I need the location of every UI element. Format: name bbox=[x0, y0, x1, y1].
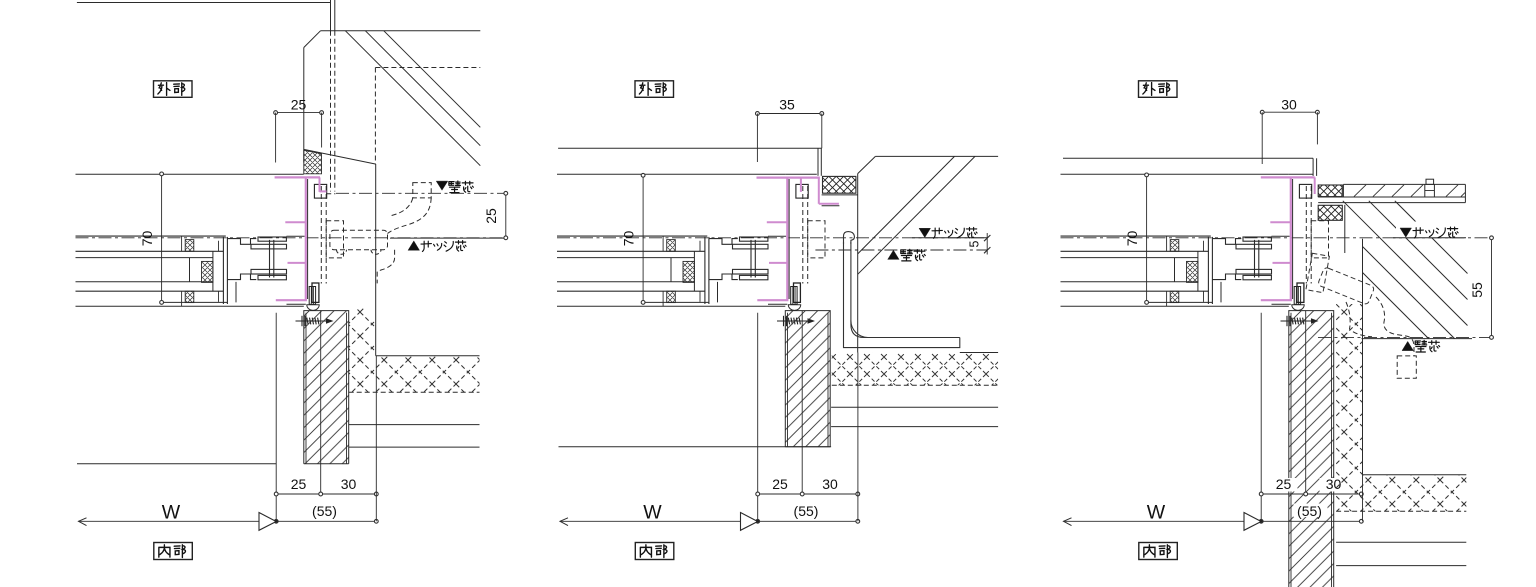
sash bottom line bbox=[162, 301, 228, 303]
interior frame line bbox=[1061, 305, 1289, 307]
jamb top flange (magenta) bbox=[1261, 176, 1315, 178]
sash-center leader solid bbox=[912, 237, 987, 239]
eave soffit line bbox=[321, 30, 481, 32]
label box GAIBU (exterior) bbox=[1139, 81, 1178, 98]
siding board hatch ticks bbox=[1354, 185, 1458, 197]
jamb face black edge bbox=[788, 179, 790, 299]
glazing spacer block bbox=[683, 261, 694, 282]
siding board right end bbox=[1464, 184, 1466, 202]
dimension text 25 mask bbox=[1270, 478, 1298, 492]
dimension 55 line bbox=[1491, 238, 1493, 338]
eave soffit top line bbox=[77, 2, 331, 4]
glazing bead vertical bbox=[212, 251, 214, 291]
insulation band bottom (dashed) bbox=[349, 391, 480, 393]
interlock tab bottom bbox=[258, 275, 286, 279]
extension line middle bbox=[1305, 311, 1307, 495]
svg-text:25: 25 bbox=[1276, 476, 1292, 492]
meeting stile vertical 2 bbox=[1211, 237, 1213, 304]
wall-center label triangle bbox=[888, 250, 899, 259]
frame bottom clip bbox=[794, 283, 801, 302]
steel angle corner fillet bbox=[851, 321, 868, 338]
frame link line bottom bbox=[1272, 303, 1291, 305]
dimension text (55) mask bbox=[790, 504, 824, 518]
extension line left bbox=[1260, 313, 1262, 522]
balcony diagonal 2 bbox=[365, 31, 480, 146]
frame head line (exterior) bbox=[76, 173, 304, 175]
insulation band bottom (dashed) bbox=[1336, 510, 1466, 512]
wall corner vertical 1 bbox=[817, 148, 819, 176]
hidden anchor tube inner (dashed) bbox=[1346, 302, 1372, 337]
sash edge vertical lower bbox=[235, 282, 237, 303]
jamb fin lower (magenta) bbox=[1273, 262, 1291, 264]
frame link line bottom bbox=[287, 303, 306, 305]
frame screw boss bbox=[309, 287, 315, 305]
sash-center label SASSHI-SHIN bbox=[1413, 228, 1423, 238]
rail inner vertical top bbox=[181, 236, 183, 251]
exterior gasket block bottom (crosshatch) bbox=[1318, 205, 1342, 220]
interior frame line bbox=[557, 305, 785, 307]
top dimension 30 ext right bbox=[1316, 112, 1318, 144]
glazing gasket top bbox=[667, 240, 676, 252]
upper wall top line bbox=[875, 155, 998, 157]
wall-center label KABE-SHIN bbox=[901, 249, 912, 261]
sash center line (dash-dot) bbox=[557, 237, 987, 239]
extension line left bbox=[275, 313, 277, 522]
insulation band (dashed crosshatch) bbox=[376, 356, 480, 393]
dimension 70 line bbox=[161, 174, 163, 303]
label box NAIBU (interior) bbox=[635, 543, 674, 560]
wall face vertical bbox=[857, 174, 859, 353]
wall center line (dash-dot) bbox=[1318, 336, 1490, 338]
sash-center label triangle bbox=[919, 228, 931, 237]
W arrow triangle bbox=[259, 513, 276, 531]
interlock tab top bbox=[740, 237, 768, 241]
interlock tab top bbox=[258, 237, 286, 241]
wall diagonal 2 bbox=[1363, 247, 1455, 339]
interlock flange top bbox=[1236, 244, 1272, 249]
steel angle outer bbox=[844, 242, 960, 348]
wall diagonal 4 bbox=[1369, 201, 1468, 300]
top dimension 35 ext right bbox=[821, 114, 823, 149]
dimension text 30 mask bbox=[816, 478, 844, 492]
frame link line top bbox=[287, 235, 305, 237]
glass pane line 1 bbox=[76, 257, 213, 259]
frame head line extension bbox=[1289, 173, 1313, 175]
interlock hat bottom bbox=[227, 274, 256, 280]
jamb top flange (magenta) bbox=[275, 176, 320, 178]
interlock flange top bbox=[733, 244, 769, 249]
frame link line top bbox=[768, 235, 786, 237]
W arrow triangle bbox=[1244, 513, 1261, 531]
glazing gasket bottom bbox=[1170, 291, 1179, 302]
frame bottom cup bbox=[307, 305, 319, 311]
frame link line bottom bbox=[768, 303, 787, 305]
meeting stile vertical 2 bbox=[226, 237, 228, 304]
interior wall face line bbox=[559, 446, 832, 448]
wall center line (dash-dot) bbox=[336, 192, 506, 194]
wall top line bbox=[1063, 157, 1313, 159]
glazing bead step bbox=[1203, 241, 1205, 252]
steel angle hook curl bbox=[844, 232, 855, 244]
sash center line (dash-dot) bbox=[1061, 237, 1491, 239]
wall corner vertical bbox=[1344, 205, 1346, 253]
svg-text:70: 70 bbox=[621, 231, 637, 247]
W dimension line bbox=[560, 520, 758, 522]
glazing bead step bbox=[218, 241, 220, 252]
sash-center label SASSHI-SHIN bbox=[932, 228, 942, 238]
wall center line (dash-dot) bbox=[815, 249, 987, 251]
wall top line bbox=[558, 147, 822, 149]
sash surround face vertical bbox=[303, 48, 305, 163]
svg-text:70: 70 bbox=[139, 231, 155, 247]
interlock flange top bbox=[251, 244, 287, 249]
insulation strip (dashed crosshatch) bbox=[1336, 304, 1362, 511]
dimension 5 connector bbox=[986, 233, 988, 255]
glazing line 2 bbox=[76, 290, 224, 292]
dimension 5 tick bottom bbox=[984, 247, 990, 253]
wall face vertical bbox=[375, 164, 377, 356]
W arrow triangle bbox=[741, 513, 758, 531]
sash top rail line bbox=[1061, 235, 1211, 237]
glazing bead vertical bbox=[1197, 251, 1199, 291]
dimension 70 line bbox=[1146, 175, 1148, 303]
wall diagonal 5 bbox=[1395, 201, 1468, 274]
hidden frame line 1 (dashed) bbox=[802, 186, 804, 284]
eave vertical 2 bbox=[334, 0, 336, 31]
exterior sealant block (crosshatch) bbox=[304, 150, 322, 174]
column inner edge left bbox=[787, 313, 789, 447]
wall diagonal 1 bbox=[1363, 273, 1429, 339]
interlock web vertical 1 bbox=[1254, 240, 1256, 278]
sash bottom line bbox=[643, 301, 709, 303]
exterior gasket block (crosshatch) bbox=[823, 176, 856, 193]
board end corner tick bbox=[1461, 193, 1465, 197]
extension line middle bbox=[801, 311, 803, 495]
interior wall line 2 bbox=[1336, 565, 1466, 567]
svg-text:(55): (55) bbox=[1297, 503, 1322, 519]
wall diagonal face 1 bbox=[858, 156, 955, 254]
svg-text:(55): (55) bbox=[794, 503, 819, 519]
frame anchor hook bbox=[1299, 184, 1311, 198]
siding board top line bbox=[1343, 183, 1465, 185]
extension to dimension bbox=[375, 356, 377, 522]
hidden anchor plate tilted (dashed) bbox=[1317, 267, 1374, 305]
svg-text:25: 25 bbox=[483, 208, 499, 224]
svg-text:25: 25 bbox=[772, 476, 788, 492]
svg-text:W: W bbox=[1147, 502, 1166, 524]
sash jamb frame vertical (magenta) bbox=[786, 177, 788, 300]
svg-text:W: W bbox=[643, 502, 662, 524]
glass edge vertical bbox=[670, 258, 672, 282]
dimension 70 line bbox=[642, 175, 644, 302]
meeting stile vertical 1 bbox=[222, 237, 224, 304]
board joint break bbox=[1424, 184, 1426, 197]
interlock hat bottom bbox=[709, 274, 738, 280]
interlock tab bottom bbox=[1243, 275, 1271, 279]
sash jamb frame vertical (magenta) bbox=[1290, 177, 1292, 300]
label box GAIBU (exterior) bbox=[635, 81, 674, 98]
hidden anchor clip (dashed) bbox=[1311, 221, 1328, 258]
eave hidden vertical 1 (dashed) bbox=[330, 31, 332, 192]
siding board bottom line 1 bbox=[1318, 196, 1465, 198]
hidden wall top (dashed) bbox=[375, 67, 480, 69]
W arrow left bbox=[79, 518, 87, 526]
frame screw boss bbox=[1294, 287, 1300, 305]
W dimension line bbox=[1064, 520, 1262, 522]
svg-text:55: 55 bbox=[1469, 282, 1485, 298]
interlock flange bottom bbox=[251, 269, 287, 274]
glazing bead step bbox=[699, 241, 701, 252]
sash-center label triangle bbox=[408, 241, 420, 250]
siding board end cap bbox=[1342, 184, 1344, 197]
top dimension 30 ext left bbox=[1261, 112, 1263, 164]
insulation band top line bbox=[1363, 474, 1467, 476]
jamb bottom flange (magenta) bbox=[757, 299, 788, 301]
eave corner chamfer bbox=[304, 31, 321, 48]
top dimension 35 ext left bbox=[756, 114, 758, 163]
top dimension 25 ext right bbox=[321, 113, 323, 148]
hidden anchor plate (dashed) bbox=[330, 230, 388, 249]
dimension text 30 mask bbox=[335, 478, 363, 492]
frame link line top bbox=[1272, 235, 1290, 237]
rail inner vertical top bbox=[1166, 236, 1168, 251]
glazing gasket top bbox=[1170, 240, 1179, 252]
anchor screw bbox=[296, 316, 332, 326]
interlock tab bottom bbox=[740, 275, 768, 279]
hidden anchor clip (dashed) bbox=[808, 221, 825, 258]
glazing gasket bottom bbox=[185, 291, 194, 302]
svg-text:30: 30 bbox=[341, 476, 357, 492]
extension to dimension bbox=[857, 353, 859, 522]
interlock web vertical 2 bbox=[273, 240, 275, 278]
top dimension 35 line bbox=[757, 113, 821, 115]
sash jamb frame vertical (magenta) bbox=[305, 177, 307, 300]
siding board bottom line 2 bbox=[1318, 202, 1465, 204]
jamb bottom flange (magenta) bbox=[276, 299, 307, 301]
hidden link (dashed) bbox=[326, 193, 335, 195]
W arrow left bbox=[560, 518, 568, 526]
hidden anchor tube outer (dashed) bbox=[1376, 297, 1414, 356]
hidden frame line 1 (dashed) bbox=[1305, 186, 1307, 284]
frame anchor hook bbox=[796, 184, 808, 198]
hidden anchor plate foot left (dashed) bbox=[337, 250, 347, 255]
top dimension 25 ext left bbox=[275, 113, 277, 163]
interlock web vertical 2 bbox=[1258, 240, 1260, 278]
wall-center label KABE-SHIN bbox=[449, 181, 460, 193]
extension to dimension bbox=[1362, 475, 1364, 522]
wall cap vertical 2 bbox=[1316, 158, 1318, 176]
W triangle tip dot bbox=[275, 520, 278, 523]
hidden frame line 2 (dashed) bbox=[807, 186, 809, 284]
gasket bottom line bbox=[822, 194, 858, 196]
hidden wall face (dashed) bbox=[374, 68, 376, 165]
top dimension 30 line bbox=[1262, 111, 1317, 113]
insulation band top line bbox=[376, 355, 480, 357]
frame bottom clip bbox=[1297, 283, 1304, 302]
dimension line (55) bbox=[758, 520, 858, 522]
interior wall line 1 bbox=[831, 406, 998, 408]
interior furring column (hatched) bbox=[785, 311, 830, 447]
interlock tab top bbox=[1243, 237, 1271, 241]
hidden frame line 2 (dashed) bbox=[325, 186, 327, 284]
wall-center label triangle bbox=[436, 181, 448, 190]
glazing spacer block bbox=[1187, 261, 1198, 282]
steel angle inner bbox=[851, 242, 960, 338]
jamb fin lower (magenta) bbox=[288, 262, 306, 264]
insulation band bottom (dashed) bbox=[832, 384, 998, 386]
rail inner vertical top bbox=[662, 236, 664, 251]
jamb fin upper (magenta) bbox=[767, 221, 788, 223]
interior furring column (hatched) bbox=[1289, 311, 1334, 587]
hidden frame line 1 (dashed) bbox=[320, 186, 322, 284]
glass pane line 2 bbox=[1061, 281, 1198, 283]
glass pane line 1 bbox=[557, 257, 694, 259]
column inner edge right bbox=[1331, 313, 1333, 587]
label box NAIBU (interior) bbox=[1139, 543, 1178, 560]
frame bottom clip bbox=[312, 283, 319, 302]
jamb gasket stub (magenta) bbox=[819, 203, 839, 205]
dimension line (55) bbox=[1261, 520, 1361, 522]
top dimension 25 line bbox=[276, 112, 322, 114]
eave vertical 1 bbox=[330, 0, 332, 31]
jamb fin upper (magenta) bbox=[1270, 221, 1291, 223]
anchor screw bbox=[1281, 316, 1317, 326]
label box GAIBU (exterior) bbox=[154, 81, 193, 98]
dimension text (55) mask bbox=[309, 504, 343, 518]
interlock hat bottom bbox=[1212, 274, 1241, 280]
frame head line (exterior) bbox=[1061, 173, 1289, 175]
eave hidden vertical 2 (dashed) bbox=[334, 31, 336, 192]
glazing gasket top bbox=[185, 240, 194, 252]
interior wall line 1 bbox=[1336, 541, 1466, 543]
glass pane line 2 bbox=[557, 281, 694, 283]
gasket support line bbox=[822, 205, 840, 207]
wall diagonal 3 bbox=[1343, 201, 1468, 326]
svg-text:25: 25 bbox=[291, 97, 307, 113]
jamb fin upper (magenta) bbox=[285, 221, 306, 223]
frame head line (exterior) bbox=[557, 173, 785, 175]
glazing line 1 bbox=[76, 250, 224, 252]
interlock flange bottom bbox=[733, 269, 769, 274]
jamb face black edge bbox=[1292, 179, 1294, 299]
balcony diagonal 1 bbox=[345, 31, 480, 166]
svg-text:30: 30 bbox=[1281, 97, 1297, 113]
meeting stile vertical 1 bbox=[704, 237, 706, 304]
insulation strip (dashed crosshatch) bbox=[349, 308, 376, 392]
svg-text:30: 30 bbox=[822, 476, 838, 492]
board joint clip bbox=[1426, 179, 1434, 184]
extension line middle bbox=[320, 311, 322, 495]
svg-text:25: 25 bbox=[291, 476, 307, 492]
column inner edge left bbox=[1290, 313, 1292, 587]
interlock hat top bbox=[227, 239, 256, 245]
hidden frame line 2 (dashed) bbox=[1310, 186, 1312, 284]
glazing line 1 bbox=[1061, 250, 1209, 252]
meeting stile vertical 2 bbox=[708, 237, 710, 304]
sash-center leader solid bbox=[390, 237, 506, 239]
hidden anchor bracket square (dashed) bbox=[413, 183, 431, 198]
jamb flange drop inner (magenta) bbox=[800, 178, 802, 192]
hidden anchor plate foot right (dashed) bbox=[371, 250, 381, 255]
hidden anchor clip (dashed) bbox=[326, 221, 343, 258]
hidden anchor tail (dashed) bbox=[377, 250, 394, 284]
glass edge vertical bbox=[189, 258, 191, 282]
jamb bottom flange (magenta) bbox=[1261, 299, 1292, 301]
interior wall face line bbox=[77, 463, 276, 465]
dimension line 25/30 bbox=[758, 493, 858, 495]
wall corner chamfer bbox=[858, 156, 876, 173]
glazing gasket bottom bbox=[667, 291, 676, 302]
sash-center label mask bbox=[1396, 222, 1464, 238]
frame screw boss bbox=[791, 287, 797, 305]
dimension text 30 mask bbox=[1320, 478, 1348, 492]
insulation band (dashed crosshatch) bbox=[832, 353, 998, 386]
glass pane line 1 bbox=[1061, 257, 1198, 259]
dimension text (55) mask bbox=[1294, 504, 1328, 518]
svg-text:35: 35 bbox=[779, 97, 795, 113]
hidden anchor tube inner (dashed) bbox=[392, 198, 413, 216]
sash edge vertical lower bbox=[1220, 282, 1222, 303]
dimension 5 tick top bbox=[984, 235, 990, 241]
glass pane line 2 bbox=[76, 281, 213, 283]
right dimension 25 line bbox=[505, 193, 507, 238]
hidden anchor tube outer (dashed) bbox=[388, 198, 432, 234]
column bottom edge bbox=[785, 446, 830, 448]
wall cap vertical 1 bbox=[1312, 158, 1314, 176]
jamb flange drop right (magenta) bbox=[818, 178, 820, 204]
insulation strip edge bbox=[1362, 239, 1364, 475]
glass edge vertical bbox=[1174, 258, 1176, 282]
jamb flange drop (magenta) bbox=[1314, 177, 1316, 194]
jamb fin lower (magenta) bbox=[769, 262, 787, 264]
dimension line 25/30 bbox=[276, 493, 376, 495]
svg-text:5: 5 bbox=[968, 240, 982, 247]
frame anchor hook bbox=[314, 184, 326, 198]
anchor screw bbox=[777, 316, 813, 326]
balcony diagonal 3 bbox=[384, 31, 481, 128]
sash bottom line bbox=[1147, 301, 1213, 303]
label box NAIBU (interior) bbox=[154, 543, 193, 560]
column inner edge right bbox=[827, 313, 829, 447]
interlock hat top bbox=[1212, 239, 1241, 245]
insulation band (dashed crosshatch) bbox=[1363, 475, 1467, 512]
jamb face black edge bbox=[307, 179, 309, 299]
interior wall line 1 bbox=[349, 424, 480, 426]
rail inner vertical bottom bbox=[1166, 291, 1168, 306]
svg-text:70: 70 bbox=[1124, 231, 1140, 247]
glazing line 1 bbox=[557, 250, 705, 252]
exterior gasket block top (crosshatch) bbox=[1318, 185, 1342, 197]
dimension line (55) bbox=[276, 520, 376, 522]
hidden anchor clip tilted (dashed) bbox=[1306, 253, 1329, 292]
sash-center label SASSHI-SHIN bbox=[421, 241, 431, 251]
extension line left bbox=[757, 313, 759, 522]
glazing line 2 bbox=[1061, 290, 1209, 292]
rail inner vertical bottom bbox=[662, 291, 664, 306]
column bottom edge bbox=[304, 463, 349, 465]
wall corner vertical 2 bbox=[820, 148, 822, 176]
dimension line 25/30 bbox=[1261, 493, 1361, 495]
wall bottom edge line bbox=[1362, 338, 1473, 340]
jamb top flange (magenta) bbox=[757, 177, 820, 179]
interior wall line 2 bbox=[349, 446, 480, 448]
sealant slope line bbox=[304, 149, 376, 164]
interlock web vertical 1 bbox=[269, 240, 271, 278]
column inner edge left bbox=[305, 313, 307, 464]
W dimension line bbox=[79, 520, 277, 522]
sash-center leader solid bbox=[1393, 237, 1466, 239]
frame bottom cup bbox=[788, 305, 800, 311]
